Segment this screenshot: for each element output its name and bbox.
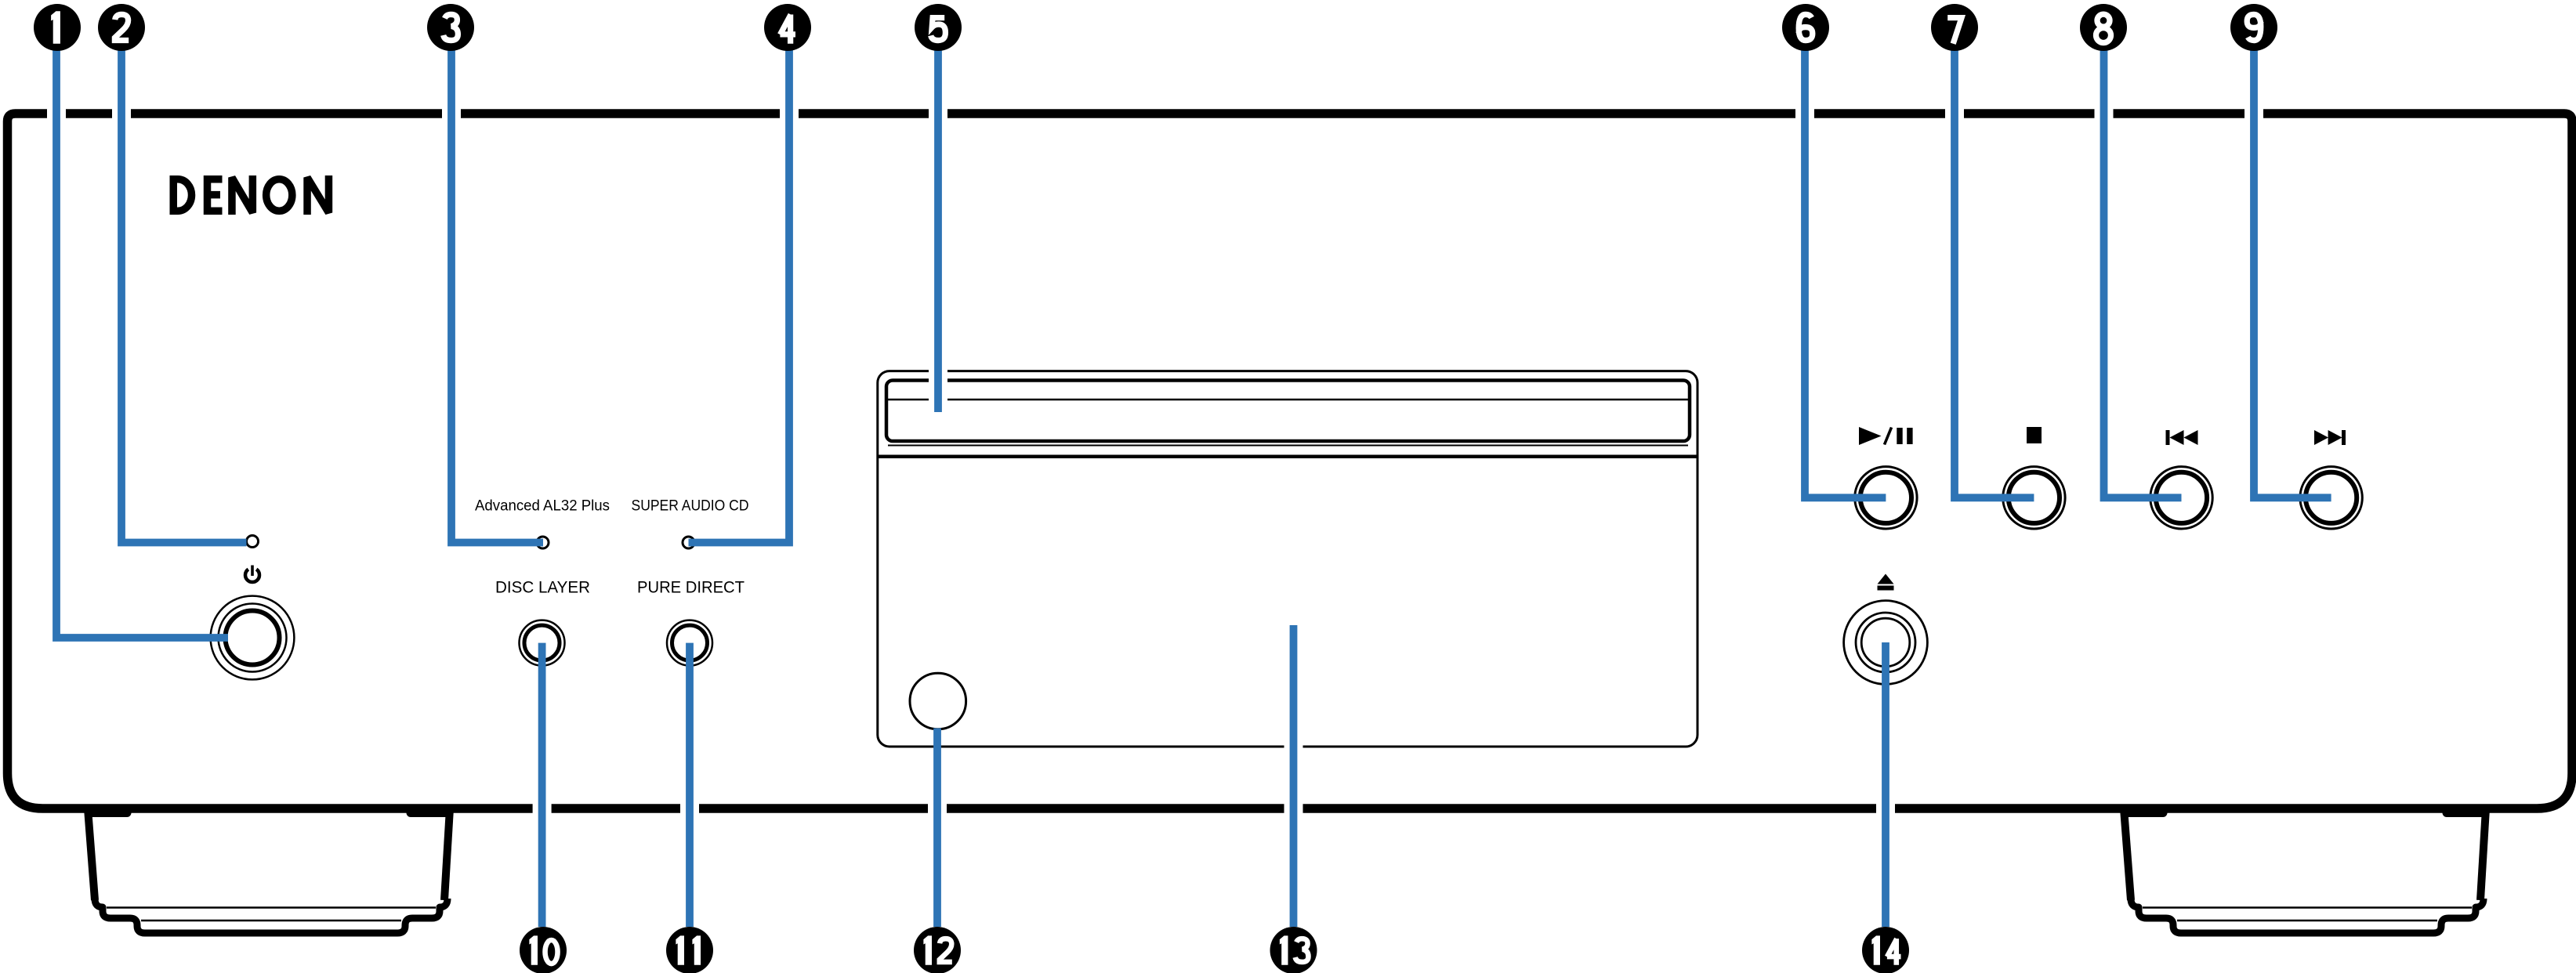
svg-text:Advanced AL32 Plus: Advanced AL32 Plus xyxy=(475,498,610,515)
svg-text:DISC LAYER: DISC LAYER xyxy=(495,579,590,597)
svg-text:PURE DIRECT: PURE DIRECT xyxy=(637,579,745,597)
svg-text:SUPER AUDIO CD: SUPER AUDIO CD xyxy=(632,498,749,515)
